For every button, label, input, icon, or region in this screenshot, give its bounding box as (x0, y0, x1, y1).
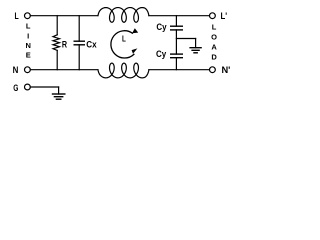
svg-text:Cy: Cy (156, 49, 167, 60)
wire top rail left (30, 15, 98, 17)
svg-text:R: R (62, 39, 67, 50)
svg-text:D: D (211, 52, 217, 61)
capacitor Cx plates (74, 40, 84, 42)
svg-text:Cy: Cy (156, 22, 167, 33)
svg-text:I: I (27, 31, 29, 40)
wire between Cy1 and Cy2 (175, 30, 177, 54)
wire ground G lead (30, 86, 58, 88)
wire resistor top lead (56, 16, 58, 35)
inductor bottom winding (98, 63, 149, 78)
svg-text:O: O (211, 33, 217, 42)
wire capacitor Cx bottom lead (78, 45, 80, 70)
wire capacitor Cy1 top lead (175, 16, 177, 27)
choke rotation arc (111, 31, 134, 58)
terminal N (25, 67, 31, 73)
wire capacitor Cy2 bottom lead (175, 58, 177, 70)
terminal G (25, 84, 31, 90)
wire resistor bottom lead (56, 50, 58, 69)
svg-text:N: N (25, 41, 30, 50)
svg-text:Cx: Cx (86, 39, 97, 50)
svg-text:L: L (122, 35, 126, 44)
svg-text:G: G (13, 83, 18, 93)
svg-text:L: L (14, 11, 18, 22)
terminal N' (210, 67, 216, 73)
svg-text:L: L (26, 22, 31, 31)
svg-text:A: A (211, 43, 217, 52)
svg-text:N: N (13, 65, 19, 76)
ground middle (190, 47, 201, 49)
arrowhead top (132, 28, 138, 33)
wire bottom rail right (149, 69, 210, 71)
wire bottom rail left (30, 69, 98, 71)
wire capacitor Cx top lead (78, 16, 80, 42)
capacitor Cy2 plates (171, 53, 183, 55)
inductor top winding (98, 8, 149, 23)
arrowhead bottom (132, 48, 138, 53)
terminal L (25, 13, 31, 19)
terminal L' (210, 13, 216, 19)
svg-text:N': N' (221, 65, 230, 76)
ground bottom-left (53, 93, 65, 95)
capacitor Cy1 plates (171, 25, 183, 27)
wire to middle ground (176, 38, 195, 40)
resistor R zigzag (53, 35, 60, 51)
svg-text:E: E (26, 51, 31, 60)
svg-text:L: L (212, 23, 217, 32)
svg-text:L': L' (220, 11, 227, 22)
wire top rail right (149, 15, 210, 17)
